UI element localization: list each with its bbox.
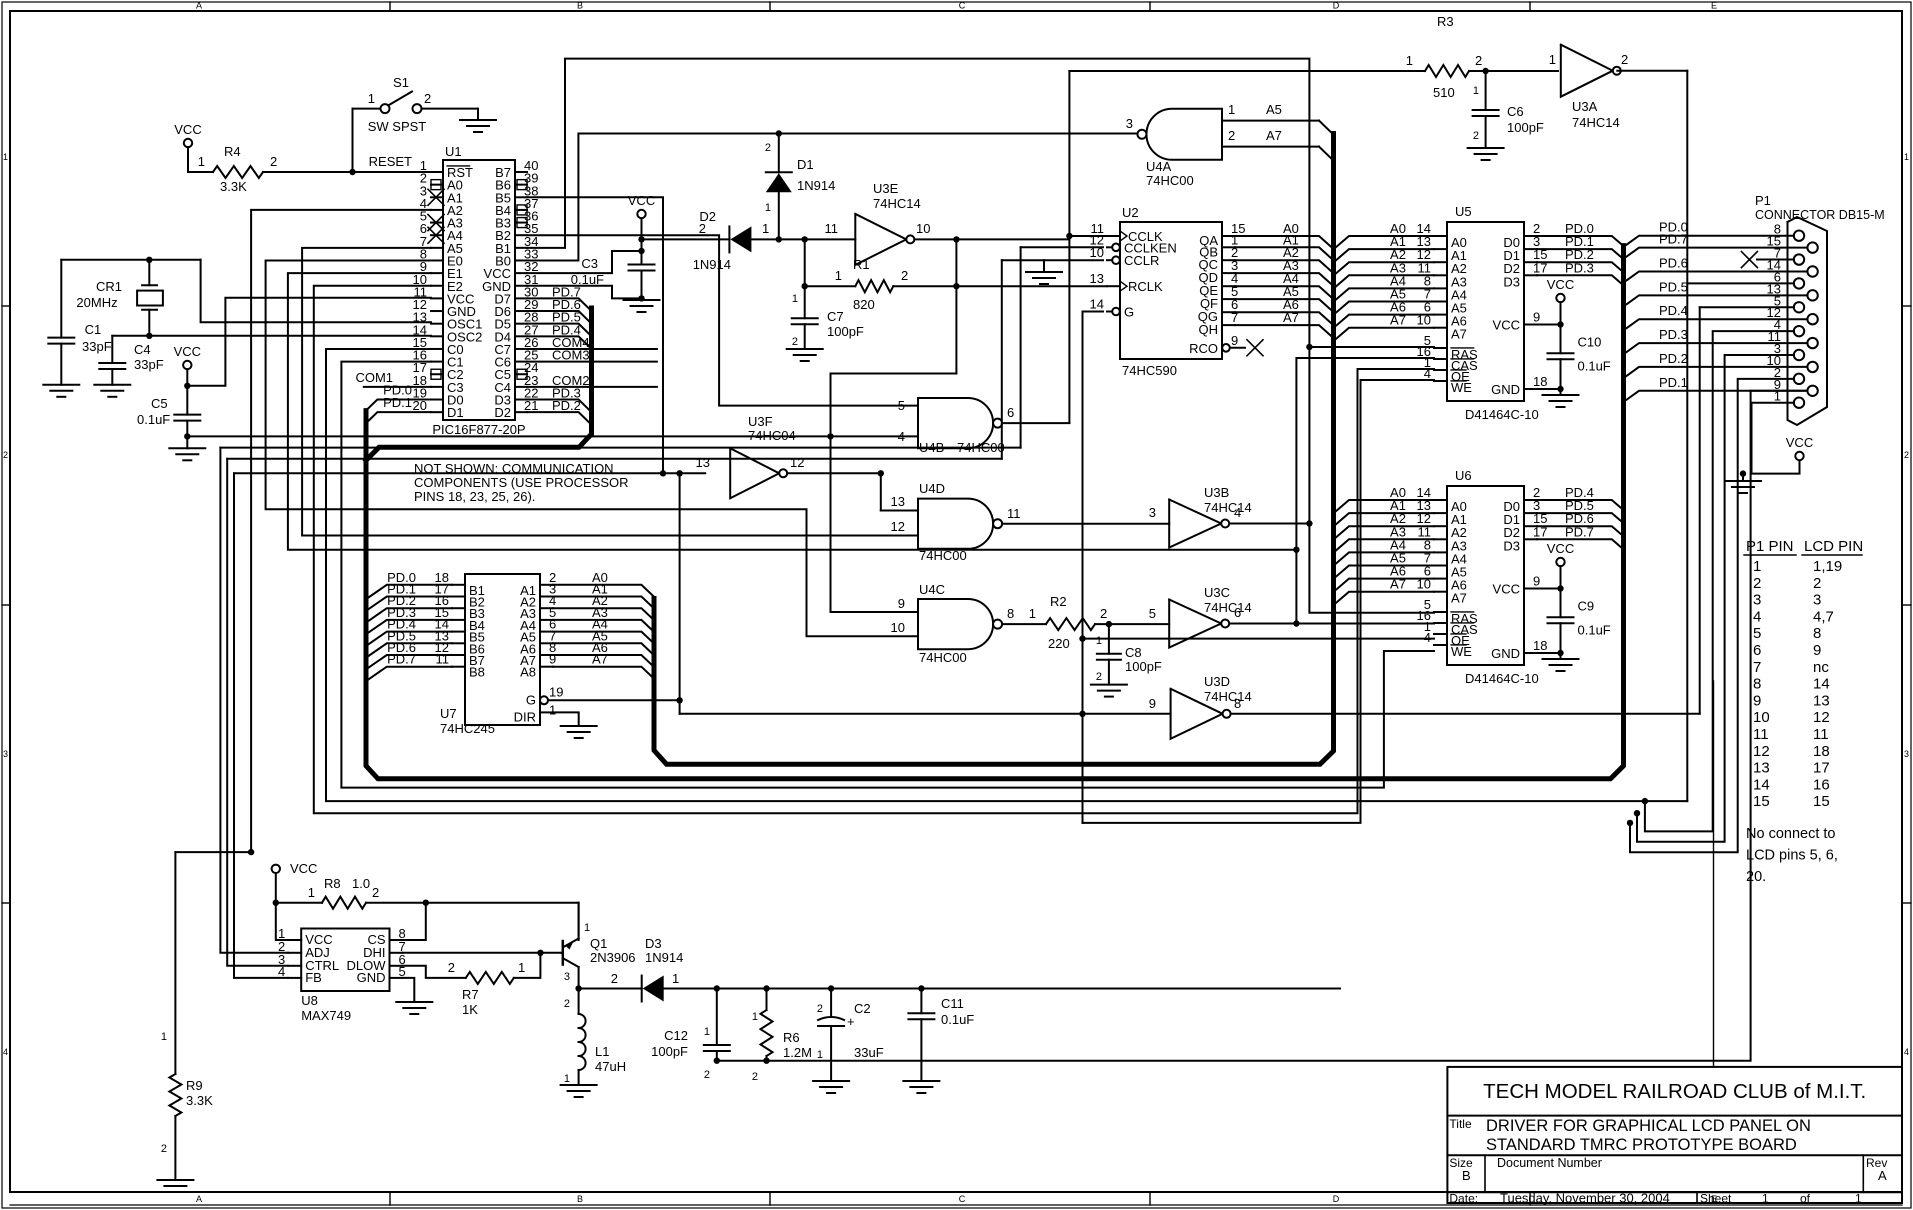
svg-text:U3B: U3B	[1204, 485, 1229, 500]
svg-text:12: 12	[891, 519, 905, 534]
svg-text:RCLK: RCLK	[1128, 279, 1163, 294]
svg-text:18: 18	[1533, 638, 1547, 653]
svg-text:1: 1	[817, 1049, 823, 1061]
svg-text:74HC14: 74HC14	[1204, 689, 1252, 704]
svg-text:510: 510	[1433, 85, 1455, 100]
svg-text:U3D: U3D	[1204, 674, 1230, 689]
svg-text:PD.4: PD.4	[1659, 303, 1688, 318]
svg-text:3: 3	[1126, 116, 1133, 131]
svg-text:C12: C12	[664, 1028, 688, 1043]
svg-text:VCC: VCC	[628, 193, 655, 208]
svg-text:Sheet: Sheet	[1700, 1192, 1732, 1206]
svg-text:2: 2	[448, 960, 455, 975]
svg-text:10: 10	[1753, 709, 1770, 726]
svg-text:1.2M: 1.2M	[783, 1045, 812, 1060]
svg-text:L1: L1	[595, 1044, 609, 1059]
svg-text:74HC00: 74HC00	[1146, 173, 1194, 188]
svg-text:1: 1	[198, 154, 205, 169]
svg-text:U3F: U3F	[748, 414, 773, 429]
svg-text:U8: U8	[301, 993, 318, 1008]
svg-text:GND: GND	[357, 970, 386, 985]
svg-text:0.1uF: 0.1uF	[1578, 623, 1611, 638]
svg-text:2: 2	[901, 268, 908, 283]
svg-text:A: A	[196, 1, 202, 11]
svg-text:2: 2	[792, 336, 798, 348]
svg-text:QH: QH	[1199, 322, 1219, 337]
svg-text:5: 5	[1149, 606, 1156, 621]
svg-text:100pF: 100pF	[1507, 120, 1544, 135]
svg-text:74HC00: 74HC00	[919, 548, 967, 563]
svg-text:2: 2	[1228, 128, 1235, 143]
svg-text:1: 1	[161, 1031, 167, 1043]
svg-text:8: 8	[1007, 606, 1014, 621]
svg-text:18: 18	[1813, 743, 1830, 760]
svg-text:D3: D3	[1503, 538, 1520, 553]
svg-text:74HC00: 74HC00	[919, 650, 967, 665]
svg-text:VCC: VCC	[1493, 582, 1520, 597]
svg-text:Tuesday, November 30, 2004: Tuesday, November 30, 2004	[1500, 1191, 1670, 1206]
svg-text:A7: A7	[592, 652, 608, 667]
svg-text:VCC: VCC	[1493, 318, 1520, 333]
svg-text:17: 17	[1813, 760, 1830, 777]
svg-text:PD.7: PD.7	[1565, 524, 1594, 539]
svg-text:2: 2	[1475, 53, 1482, 68]
svg-text:1: 1	[564, 1073, 570, 1085]
svg-text:GND: GND	[1491, 646, 1520, 661]
svg-text:3: 3	[3, 749, 8, 759]
svg-text:B8: B8	[469, 665, 485, 680]
svg-text:DIR: DIR	[514, 709, 536, 724]
svg-text:P1 PIN: P1 PIN	[1746, 538, 1794, 555]
svg-text:11: 11	[1813, 726, 1829, 743]
svg-text:R9: R9	[186, 1078, 203, 1093]
svg-text:VCC: VCC	[1547, 541, 1574, 556]
svg-text:2: 2	[161, 1143, 167, 1155]
svg-text:C3: C3	[581, 256, 598, 271]
svg-text:10: 10	[1417, 577, 1431, 592]
svg-text:2: 2	[270, 154, 277, 169]
svg-text:R2: R2	[1050, 594, 1067, 609]
svg-text:1.0: 1.0	[352, 876, 370, 891]
svg-text:TECH MODEL RAILROAD CLUB of M.: TECH MODEL RAILROAD CLUB of M.I.T.	[1483, 1080, 1866, 1103]
svg-text:D2: D2	[494, 405, 511, 420]
svg-text:9: 9	[549, 652, 556, 667]
svg-text:9: 9	[1753, 692, 1761, 709]
svg-text:20.: 20.	[1746, 869, 1766, 885]
svg-text:E: E	[1711, 1, 1717, 11]
svg-text:PD.5: PD.5	[1659, 279, 1688, 294]
svg-text:2: 2	[1100, 606, 1107, 621]
svg-text:1: 1	[762, 221, 769, 236]
svg-text:C2: C2	[854, 1001, 871, 1016]
svg-text:1N914: 1N914	[693, 257, 731, 272]
svg-text:RESET: RESET	[369, 154, 412, 169]
svg-text:PD.6: PD.6	[1659, 255, 1688, 270]
svg-text:1: 1	[704, 1026, 710, 1038]
svg-text:STANDARD TMRC PROTOTYPE BOARD: STANDARD TMRC PROTOTYPE BOARD	[1486, 1136, 1797, 1154]
svg-text:LCD PIN: LCD PIN	[1804, 538, 1863, 555]
svg-text:1: 1	[1228, 102, 1235, 117]
svg-text:9: 9	[898, 596, 905, 611]
svg-text:U3C: U3C	[1204, 585, 1230, 600]
svg-text:WE: WE	[1451, 644, 1472, 659]
svg-text:13: 13	[1813, 692, 1830, 709]
svg-text:1: 1	[368, 91, 375, 106]
svg-text:2: 2	[372, 885, 379, 900]
svg-text:47uH: 47uH	[595, 1059, 626, 1074]
svg-text:R1: R1	[853, 257, 870, 272]
svg-text:1: 1	[752, 1011, 758, 1023]
svg-text:PINS 18, 23, 25, 26).: PINS 18, 23, 25, 26).	[414, 489, 535, 504]
svg-text:PD.7: PD.7	[1659, 232, 1688, 247]
svg-text:C10: C10	[1578, 335, 1602, 350]
svg-text:+: +	[847, 1014, 855, 1029]
svg-text:9: 9	[1533, 310, 1540, 325]
svg-text:4: 4	[1753, 608, 1761, 625]
svg-text:5: 5	[1753, 625, 1761, 642]
svg-text:R4: R4	[224, 144, 241, 159]
svg-text:PD.3: PD.3	[1565, 260, 1594, 275]
svg-text:B: B	[577, 1194, 583, 1204]
svg-text:1: 1	[672, 971, 679, 986]
svg-text:U5: U5	[1455, 204, 1472, 219]
svg-text:D41464C-10: D41464C-10	[1465, 407, 1539, 422]
svg-text:Date:: Date:	[1449, 1192, 1478, 1206]
svg-text:R3: R3	[1437, 14, 1454, 29]
svg-text:2: 2	[424, 91, 431, 106]
svg-text:1N914: 1N914	[645, 950, 683, 965]
svg-text:PD.2: PD.2	[1659, 351, 1688, 366]
svg-text:19: 19	[549, 684, 563, 699]
svg-text:U3E: U3E	[873, 181, 899, 196]
svg-text:10: 10	[1417, 313, 1431, 328]
svg-text:74HC14: 74HC14	[1204, 600, 1252, 615]
svg-text:2: 2	[1813, 575, 1821, 592]
svg-text:VCC: VCC	[174, 344, 201, 359]
svg-text:8: 8	[1753, 676, 1761, 693]
svg-text:14: 14	[1753, 776, 1770, 793]
svg-text:A7: A7	[1390, 313, 1406, 328]
svg-text:74HC14: 74HC14	[873, 196, 921, 211]
svg-text:4: 4	[1424, 630, 1431, 645]
svg-text:D1: D1	[797, 157, 814, 172]
svg-text:18: 18	[1533, 374, 1547, 389]
svg-text:2: 2	[1621, 52, 1628, 67]
svg-text:74HC245: 74HC245	[440, 721, 495, 736]
svg-text:9: 9	[1533, 574, 1540, 589]
svg-text:A7: A7	[1266, 128, 1282, 143]
svg-text:2: 2	[704, 1069, 710, 1081]
svg-text:13: 13	[696, 455, 710, 470]
svg-text:D1: D1	[447, 405, 464, 420]
svg-text:1: 1	[549, 702, 556, 717]
svg-text:1: 1	[584, 922, 590, 934]
svg-text:1: 1	[1406, 53, 1413, 68]
svg-text:VCC: VCC	[290, 861, 317, 876]
svg-text:C7: C7	[827, 309, 844, 324]
svg-text:VCC: VCC	[1547, 277, 1574, 292]
svg-text:PD.7: PD.7	[387, 652, 416, 667]
svg-text:B: B	[1462, 1168, 1471, 1183]
svg-text:2: 2	[1096, 671, 1102, 683]
svg-text:2: 2	[1473, 130, 1479, 142]
svg-text:3.3K: 3.3K	[220, 179, 247, 194]
svg-text:10: 10	[891, 620, 905, 635]
svg-text:6: 6	[1234, 605, 1241, 620]
svg-text:220: 220	[1048, 636, 1070, 651]
svg-text:Title: Title	[1449, 1117, 1472, 1131]
svg-text:of: of	[1800, 1192, 1811, 1206]
svg-text:12: 12	[1753, 743, 1770, 760]
svg-text:14: 14	[1090, 297, 1104, 312]
svg-text:2: 2	[1753, 575, 1761, 592]
svg-text:15: 15	[1753, 793, 1770, 810]
svg-text:VCC: VCC	[1786, 435, 1813, 450]
svg-text:PIC16F877-20P: PIC16F877-20P	[432, 422, 525, 437]
svg-text:U4C: U4C	[919, 582, 945, 597]
svg-text:A7: A7	[1390, 577, 1406, 592]
svg-text:0.1uF: 0.1uF	[137, 412, 170, 427]
svg-text:1: 1	[1549, 52, 1556, 67]
svg-text:2: 2	[564, 998, 570, 1010]
svg-text:NOT SHOWN: COMMUNICATION: NOT SHOWN: COMMUNICATION	[414, 461, 614, 476]
svg-text:3: 3	[1149, 505, 1156, 520]
svg-text:G: G	[526, 692, 536, 707]
svg-text:1: 1	[1029, 606, 1036, 621]
svg-text:DRIVER FOR GRAPHICAL LCD PANEL: DRIVER FOR GRAPHICAL LCD PANEL ON	[1486, 1117, 1811, 1135]
svg-text:0.1uF: 0.1uF	[941, 1012, 974, 1027]
svg-text:CR1: CR1	[96, 279, 122, 294]
svg-text:C6: C6	[1507, 104, 1524, 119]
svg-text:3.3K: 3.3K	[186, 1093, 213, 1108]
svg-text:VCC: VCC	[174, 122, 201, 137]
svg-text:2: 2	[1904, 450, 1909, 460]
svg-text:U3A: U3A	[1572, 99, 1598, 114]
svg-text:33uF: 33uF	[854, 1045, 884, 1060]
svg-text:RCO: RCO	[1189, 341, 1218, 356]
svg-text:11: 11	[825, 221, 839, 236]
svg-text:10: 10	[916, 221, 930, 236]
svg-text:4: 4	[1424, 366, 1431, 381]
svg-text:100pF: 100pF	[1125, 659, 1162, 674]
svg-text:1: 1	[1753, 558, 1761, 575]
svg-text:5: 5	[898, 398, 905, 413]
svg-text:U6: U6	[1455, 468, 1472, 483]
svg-text:U1: U1	[445, 144, 462, 159]
svg-text:7: 7	[1231, 310, 1238, 325]
svg-text:1: 1	[308, 885, 315, 900]
svg-text:U2: U2	[1122, 205, 1139, 220]
svg-text:4: 4	[1234, 505, 1241, 520]
svg-text:D: D	[1333, 1194, 1340, 1204]
svg-text:1: 1	[1762, 1192, 1769, 1206]
svg-text:U4D: U4D	[919, 481, 945, 496]
svg-text:D3: D3	[645, 936, 662, 951]
svg-text:2: 2	[817, 1003, 823, 1015]
svg-text:2N3906: 2N3906	[590, 950, 636, 965]
svg-text:3: 3	[1904, 749, 1909, 759]
svg-text:3: 3	[1753, 592, 1761, 609]
svg-text:9: 9	[1149, 696, 1156, 711]
svg-text:A7: A7	[1451, 591, 1467, 606]
svg-text:2: 2	[752, 1071, 758, 1083]
svg-text:LCD pins 5, 6,: LCD pins 5, 6,	[1746, 848, 1838, 864]
svg-text:S1: S1	[393, 75, 409, 90]
svg-text:C4: C4	[134, 342, 151, 357]
svg-text:20MHz: 20MHz	[76, 295, 117, 310]
svg-text:1: 1	[1096, 635, 1102, 647]
svg-text:1: 1	[1855, 1192, 1862, 1206]
svg-text:11: 11	[1753, 726, 1769, 743]
svg-text:C8: C8	[1125, 645, 1142, 660]
svg-text:100pF: 100pF	[827, 324, 864, 339]
svg-text:1: 1	[3, 152, 8, 162]
svg-text:GND: GND	[1491, 382, 1520, 397]
svg-text:1: 1	[765, 202, 771, 214]
svg-text:nc: nc	[1813, 659, 1829, 676]
svg-text:No connect to: No connect to	[1746, 826, 1835, 842]
svg-text:74HC590: 74HC590	[1122, 363, 1177, 378]
svg-text:6: 6	[1753, 642, 1761, 659]
svg-text:G: G	[1124, 305, 1134, 320]
svg-text:1: 1	[1473, 85, 1479, 97]
svg-text:14: 14	[1813, 676, 1830, 693]
svg-text:2: 2	[3, 450, 8, 460]
svg-text:FB: FB	[305, 970, 322, 985]
svg-text:R8: R8	[324, 876, 341, 891]
svg-text:9: 9	[1813, 642, 1821, 659]
svg-text:16: 16	[1813, 776, 1830, 793]
svg-text:8: 8	[1813, 625, 1821, 642]
svg-text:2: 2	[765, 142, 771, 154]
svg-text:3: 3	[1813, 592, 1821, 609]
svg-text:9: 9	[1231, 333, 1238, 348]
svg-text:A: A	[196, 1194, 202, 1204]
svg-text:C: C	[959, 1, 966, 11]
svg-text:R7: R7	[462, 987, 479, 1002]
svg-text:33pF: 33pF	[82, 339, 112, 354]
svg-text:1: 1	[835, 268, 842, 283]
svg-text:CONNECTOR DB15-M: CONNECTOR DB15-M	[1755, 208, 1885, 222]
svg-text:1: 1	[1904, 152, 1909, 162]
svg-text:820: 820	[853, 297, 875, 312]
svg-text:C5: C5	[151, 396, 168, 411]
svg-text:A7: A7	[1283, 310, 1299, 325]
svg-text:C1: C1	[85, 322, 102, 337]
svg-text:A7: A7	[1451, 327, 1467, 342]
svg-text:33pF: 33pF	[134, 357, 164, 372]
svg-text:P1: P1	[1755, 193, 1771, 208]
svg-text:74HC14: 74HC14	[1572, 115, 1620, 130]
svg-text:2: 2	[611, 971, 618, 986]
svg-text:74HC14: 74HC14	[1204, 500, 1252, 515]
svg-text:11: 11	[1007, 506, 1021, 521]
svg-text:Document Number: Document Number	[1497, 1156, 1602, 1170]
svg-text:A: A	[1878, 1168, 1887, 1183]
svg-text:U7: U7	[440, 706, 457, 721]
svg-text:0.1uF: 0.1uF	[571, 272, 604, 287]
svg-text:Q1: Q1	[590, 936, 607, 951]
svg-text:PD.3: PD.3	[1659, 327, 1688, 342]
svg-text:1: 1	[518, 960, 525, 975]
svg-text:C9: C9	[1578, 599, 1595, 614]
svg-text:13: 13	[1090, 271, 1104, 286]
svg-text:100pF: 100pF	[651, 1044, 688, 1059]
svg-text:COMPONENTS (USE PROCESSOR: COMPONENTS (USE PROCESSOR	[414, 475, 629, 490]
svg-text:SW SPST: SW SPST	[368, 119, 427, 134]
svg-text:PD.1: PD.1	[383, 395, 412, 410]
svg-text:B: B	[577, 1, 583, 11]
svg-text:1: 1	[792, 293, 798, 305]
svg-text:D3: D3	[1503, 274, 1520, 289]
svg-text:12: 12	[1813, 709, 1830, 726]
svg-text:D2: D2	[699, 209, 716, 224]
svg-text:6: 6	[1007, 405, 1014, 420]
svg-text:1,19: 1,19	[1813, 558, 1842, 575]
svg-text:U4A: U4A	[1146, 159, 1172, 174]
svg-text:3: 3	[564, 971, 570, 983]
svg-text:7: 7	[1753, 659, 1761, 676]
svg-text:8: 8	[1234, 696, 1241, 711]
svg-text:PD.1: PD.1	[1659, 375, 1688, 390]
svg-text:A5: A5	[1266, 102, 1282, 117]
svg-text:D: D	[1333, 1, 1340, 11]
svg-text:4,7: 4,7	[1813, 608, 1834, 625]
svg-text:1N914: 1N914	[797, 178, 835, 193]
svg-text:C11: C11	[941, 996, 964, 1011]
svg-text:15: 15	[1813, 793, 1830, 810]
svg-text:R6: R6	[783, 1030, 800, 1045]
svg-text:A8: A8	[520, 665, 536, 680]
svg-text:12: 12	[790, 455, 804, 470]
svg-text:1K: 1K	[462, 1002, 478, 1017]
svg-text:D41464C-10: D41464C-10	[1465, 671, 1539, 686]
svg-text:13: 13	[891, 494, 905, 509]
svg-text:4: 4	[1904, 1047, 1909, 1057]
svg-text:MAX749: MAX749	[301, 1008, 351, 1023]
svg-text:CCLR: CCLR	[1124, 253, 1159, 268]
svg-text:13: 13	[1753, 760, 1770, 777]
svg-text:4: 4	[3, 1047, 8, 1057]
svg-text:11: 11	[436, 652, 450, 667]
svg-text:0.1uF: 0.1uF	[1578, 359, 1611, 374]
svg-text:WE: WE	[1451, 380, 1472, 395]
svg-text:C: C	[959, 1194, 966, 1204]
